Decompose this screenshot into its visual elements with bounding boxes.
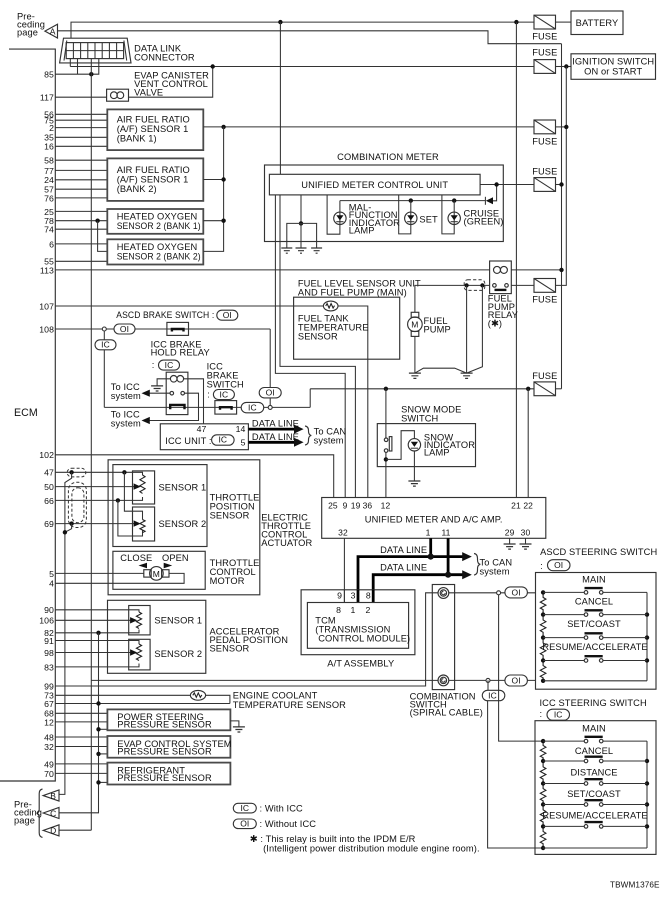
wire: pin 74 [55,228,107,230]
svg-text:106: 106 [39,616,54,626]
svg-text:LAMP: LAMP [349,226,375,236]
svg-text:SENSOR 2 (BANK 2): SENSOR 2 (BANK 2) [117,252,201,262]
svg-text:19: 19 [351,500,361,510]
data link connector body [60,38,131,63]
throttle control motor M [144,570,151,577]
wire: ECM pin 83 to accel sensor2 bottom [55,664,139,667]
svg-text:RESUME/ACCELERATE: RESUME/ACCELERATE [542,810,647,820]
svg-text:TBWM1376E: TBWM1376E [610,881,660,890]
wire: CRUISE lamp leg [442,195,454,234]
preceding page arrow A [45,24,58,38]
snow indicator lamp [408,439,420,451]
wire: K-line vertical bus to spiral cable / preceding page D [90,59,92,831]
svg-text:M: M [153,569,160,579]
svg-text:CONNECTOR: CONNECTOR [134,53,195,63]
wire: pin 56 [55,113,107,115]
svg-text:12: 12 [44,717,54,727]
wire: UMCU ground leg [300,195,302,224]
svg-text:SENSOR: SENSOR [210,511,250,521]
svg-text:MAIN: MAIN [582,724,606,734]
svg-text:14: 14 [236,424,246,434]
wire: ECM pin 113 to fuel pump relay coil [55,269,489,271]
wire: DLC pin to ignition line [69,59,71,67]
air fuel ratio sensor 1 bank 1 box [107,109,203,150]
wire: coil to ICC unit pin 47 [184,379,204,424]
connector circle on pin108 line [102,327,106,331]
svg-text:DATA LINE: DATA LINE [252,432,299,442]
svg-text:system: system [480,566,510,576]
IC oval on branch [95,340,116,350]
svg-text:A/T ASSEMBLY: A/T ASSEMBLY [327,659,394,669]
EVAP control system pressure sensor box [107,736,230,758]
svg-text:UNIFIED METER AND A/C AMP.: UNIFIED METER AND A/C AMP. [365,514,503,524]
svg-text:CANCEL: CANCEL [575,746,613,756]
wire: fuse3 to ignition bus [556,126,567,128]
svg-text:MAIN: MAIN [582,575,606,585]
wire: pin 35 [55,136,107,138]
wire: ECM pin 32 to EVAP pressure sensor [55,746,107,748]
wire: ECM pin 108 line through ASCD brake switch [55,328,270,330]
wire: ECM pin 66 to throttle sensor1 bottom [55,497,142,500]
wire: pin 76 [55,197,107,199]
ASCD brake switch contact [167,322,189,335]
open arrow [164,563,173,569]
ECM module outline [0,49,55,781]
svg-text:(BANK 2): (BANK 2) [117,184,157,194]
ground (A/C amp 29) [504,544,516,549]
svg-text:IC: IC [218,435,227,445]
wire: pin 16 [55,145,107,147]
svg-text:OI: OI [240,819,249,829]
svg-text:IC: IC [165,360,174,370]
wiper arrow sensor1 [134,483,141,489]
svg-text:OI: OI [554,560,563,570]
svg-text:DATA LINE: DATA LINE [380,545,427,555]
svg-text:SET: SET [419,214,438,224]
svg-text:ECM: ECM [14,407,38,419]
svg-text:IGNITION SWITCH: IGNITION SWITCH [572,57,654,67]
svg-text:CONTROL MODULE): CONTROL MODULE) [318,634,410,644]
wire: ECM pin 4 to throttle motor [55,573,184,583]
connector circle (bottom) [486,678,490,682]
svg-text:50: 50 [44,482,54,492]
svg-text:SENSOR: SENSOR [298,332,338,342]
svg-text:HEATED OXYGEN: HEATED OXYGEN [117,242,198,252]
wire: power feed from fuse6 line [309,389,311,408]
accel sensor 1 box [129,606,150,635]
dashed connector pill (pin 47) [67,468,86,477]
node: A/C amp pin22 tap [526,387,530,391]
wire: ground bus stub to power steering sensor [99,728,108,730]
wire: spiral top to ASCD steering switch [449,592,536,594]
wire: snow switch drop to A/C amp pin 12 [385,389,387,498]
wire: ECM pin 107 to fuel tank temperature sensor [55,305,323,307]
svg-text:system: system [314,436,344,446]
svg-text:PUMP: PUMP [424,325,451,335]
svg-text:21: 21 [511,500,521,510]
close arrow [139,563,148,569]
svg-text:DATA LINE: DATA LINE [252,419,299,429]
svg-text:CLOSE: CLOSE [120,553,152,563]
wire: pin22 vertical [527,389,529,498]
wire: snow lamp branch [386,431,415,460]
svg-text:ENGINE COOLANT: ENGINE COOLANT [233,690,318,700]
svg-text:page: page [17,28,38,38]
fuel level sensor unit and fuel pump box [294,297,400,359]
throttle control motor box [113,551,205,589]
dashed connector pill inner [72,488,84,523]
legend: OI oval [233,819,256,829]
svg-text:22: 22 [523,500,533,510]
EVAP vent valve solenoid coil [107,89,129,101]
svg-text:66: 66 [44,496,54,506]
wire: pin 55 [55,260,107,262]
heated oxygen sensor 2 bank 2 box [107,239,203,264]
wire: connector drops to ground [467,285,483,373]
wire: lamp supply rail to diode [340,200,486,202]
electric throttle control actuator box [108,460,260,595]
wire: battery feed line (top) [71,22,534,38]
ASCD steering switch box [536,573,657,690]
wire: pin 24 [55,179,107,181]
svg-text:107: 107 [39,301,54,311]
ground (fuel pump) [409,373,421,378]
fuel pump relay box [490,261,512,294]
air fuel ratio sensor 1 bank 2 box [107,158,203,201]
CAN data line 2 (pin 11) [373,538,465,590]
fuse F5 (fuel pump) [534,279,556,293]
node: pin 67 ground bus junction [96,701,100,705]
brace to CAN (lower) [474,554,480,576]
wire: ECM pin 91 to accel sensor2 top [55,641,139,645]
CRUISE lamp (green) [448,212,460,224]
wire: pin47 branch to throttle sensor2 top [124,472,142,519]
wire: ECM pin 50 to throttle sensor1 wiper [55,486,134,488]
wire: A line vertical segment to fuse4/relay/fuse6 [561,44,563,389]
svg-text:SENSOR 2 (BANK 1): SENSOR 2 (BANK 1) [117,221,201,231]
relay coil [494,266,501,273]
wiper arrow sensor2 [134,520,141,526]
node: valve supply junction on ignition line [211,64,215,68]
svg-text:25: 25 [328,500,338,510]
fuse F3 (sensors) [534,120,556,134]
SET lamp [405,212,417,224]
svg-text:HEATED OXYGEN: HEATED OXYGEN [117,212,198,222]
throttle sensor 1 potentiometer [140,475,145,493]
relay coil [170,376,177,383]
wire: fuel pump to ground [414,336,416,373]
node: 5V supply tap on pin47 line [69,470,73,474]
heated oxygen sensor 2 bank 1 box [107,209,203,234]
spiral bottom [438,675,449,686]
svg-text:(✱): (✱) [488,318,502,328]
svg-text:(SPIRAL CABLE): (SPIRAL CABLE) [410,708,483,718]
accel sensor 2 potentiometer [136,644,141,661]
svg-text:PRESSURE SENSOR: PRESSURE SENSOR [117,746,212,756]
relay contact bar [170,405,184,409]
wire: pin66 branch to throttle sensor2 bottom [118,500,143,536]
svg-text:OI: OI [223,310,232,320]
wire: SET lamp leg [399,195,411,234]
svg-text:IC: IC [248,402,257,412]
wire: pin 32 to TCM [343,538,345,602]
wire: ECM pin 48 to EVAP pressure sensor [55,736,107,738]
arrow to ICC system 2 [142,417,150,424]
wire: fuse to battery box [556,21,572,23]
svg-text:(A/F) SENSOR 1: (A/F) SENSOR 1 [117,124,189,134]
svg-text:11: 11 [441,527,450,537]
svg-text:SWITCH: SWITCH [401,414,438,424]
wire: pin 25 [55,210,107,212]
svg-text:98: 98 [44,648,54,658]
svg-text:system: system [111,391,141,401]
preceding page arrow D [43,825,59,836]
fuse F1 (battery) [534,15,556,29]
svg-text::: : [207,390,212,400]
svg-text:SWITCH: SWITCH [207,379,244,389]
svg-text:117: 117 [40,93,54,103]
accel sensor 1 potentiometer [136,612,141,629]
svg-text:SENSOR: SENSOR [210,644,250,654]
svg-text:47: 47 [197,424,207,434]
svg-text:(A/F) SENSOR 1: (A/F) SENSOR 1 [117,175,189,185]
svg-text:IC: IC [554,710,563,720]
svg-text:108: 108 [39,324,54,334]
combination switch (spiral cable) box [432,585,454,690]
wire: ICC bottom row [543,847,647,849]
ICC steering switch box [535,721,656,855]
svg-text:COMBINATION METER: COMBINATION METER [337,152,439,162]
svg-text:74: 74 [44,225,54,235]
wire: pin30 ground stub [525,538,527,544]
wire: drop to ICC steering switch MAIN [499,593,543,741]
svg-text:91: 91 [44,636,54,646]
A/T assembly box [301,590,415,655]
ground (ICC relay coil) [151,386,163,391]
svg-text:32: 32 [338,527,348,537]
node: battery junction to vertical bus [514,20,518,24]
wire: ECM pin 90 to accel sensor1 top [55,610,139,612]
wire: A/T pins into TCM [343,590,345,603]
diode D1 (meter supply) [486,197,493,204]
wire: ECM pin 49 to refrigerant sensor [55,763,107,765]
accelerator pedal position sensor box [108,600,206,673]
svg-text:83: 83 [44,662,54,672]
svg-text::: : [540,561,545,571]
wire: UMCU leg to A/C amp pin 9 [275,195,345,498]
svg-text:RESUME/ACCELERATE: RESUME/ACCELERATE [542,642,647,652]
svg-text:9: 9 [343,500,348,510]
node: pin66 branch [116,498,120,502]
svg-text:76: 76 [44,193,54,203]
dashed connector pill outer (pins 50/66/69) [68,482,86,527]
wire: pin 77 [55,169,107,171]
svg-text:page: page [14,816,35,826]
TCM box [307,603,408,649]
CAN data line 1 (pin 1) [358,538,465,590]
svg-text:SENSOR 2: SENSOR 2 [154,649,202,659]
svg-text:SENSOR 1: SENSOR 1 [154,616,202,626]
ground (A/C amp 30) [520,544,532,549]
ICC brake switch contact [215,401,237,415]
ground (power steering sensor) [233,727,245,732]
ASCD right bus [646,592,648,680]
OI oval (ASCD steering return) [505,675,528,686]
svg-text:MOTOR: MOTOR [210,576,245,586]
wire: ICC brake line [104,406,310,408]
wire: ECM pin 106 to accel sensor1 wiper [55,619,130,621]
wire: ECM pin 99 to spiral cable (top spiral) [55,593,438,686]
node: snow lamp junction [384,457,388,461]
wire: coil to ground [157,379,170,386]
wire: ground merge bar [415,368,467,373]
wire: 5V supply bus to preceding page B [59,472,72,794]
node: AF bank1 supply junction [221,125,225,129]
node: combination meter feed junction [278,20,282,24]
svg-text:OPEN: OPEN [162,553,189,563]
svg-text:HOLD RELAY: HOLD RELAY [151,348,210,358]
svg-text:FUSE: FUSE [532,32,557,42]
wire: pin29 ground stub [509,538,511,544]
svg-text::: : [540,709,545,719]
wire: ECM pin 102 to A/C amp pin 25 [55,455,333,498]
wire: preceding page A line [58,31,562,44]
svg-text:AIR FUEL RATIO: AIR FUEL RATIO [117,165,190,175]
svg-text:49: 49 [44,759,54,769]
snow switch contacts [384,438,388,442]
wire: relay contact to ICC system arrow 1 [150,392,171,394]
svg-text:4: 4 [49,579,54,589]
wire: drop via IC to ICC steering return [488,680,543,848]
fuel tank temperature sensor thermistor [323,301,338,311]
node: DLC K-line junction [89,72,93,76]
svg-text:102: 102 [39,450,54,460]
wire: pin108 IC branch [103,329,105,407]
wire: pin 78 with branch to bank2 sensor [55,220,107,222]
svg-text:30: 30 [521,527,531,537]
svg-text:FUSE: FUSE [532,295,557,305]
wire: supply vertical to bank2 and oxygen sensors [203,127,223,251]
unified meter control unit box [269,174,480,195]
svg-text:FUSE: FUSE [532,371,557,381]
data link connector pin grid [66,43,123,59]
dashed connector (fuel pump check) [464,280,485,291]
wire: ECM pin 67 line [55,703,230,705]
svg-text:AIR FUEL RATIO: AIR FUEL RATIO [117,115,190,125]
svg-text:OI: OI [512,675,521,685]
OI oval (ASCD steering feed) [505,587,528,598]
svg-text:1: 1 [350,605,355,615]
wire: fuel temp sensor to A/C amp pin 36 [338,306,368,498]
ICC left bus with resistors [540,741,546,848]
wire: battery vertical bus down to pin 21 [515,22,517,497]
svg-text:29: 29 [505,527,515,537]
wire: relay contact to fuse5 [511,284,534,286]
svg-text:85: 85 [44,70,54,80]
ICC brake hold relay box [166,372,188,414]
svg-text:system: system [111,418,141,428]
node: CRUISE lamp tap [452,198,456,202]
svg-text:FUSE: FUSE [532,137,557,147]
svg-text:ON or START: ON or START [584,67,642,77]
wire: pin 75 [55,119,107,121]
accel sensor 2 box [129,639,150,670]
svg-text:BATTERY: BATTERY [576,18,619,28]
svg-text:PRESSURE SENSOR: PRESSURE SENSOR [117,720,212,730]
power steering pressure sensor box [107,709,230,730]
svg-text::: : [152,360,157,370]
wire: oxygen bank1 right [203,220,223,222]
svg-text:8: 8 [336,605,341,615]
svg-text:IC: IC [220,389,229,399]
svg-text:C: C [50,808,56,818]
ground (meter 2) [296,248,307,253]
svg-text:PRESSURE SENSOR: PRESSURE SENSOR [117,773,212,783]
wire: K-line to bottom spiral [91,679,438,681]
wire: ASCD bottom row [543,680,647,682]
wire: ECM pin 68 to power steering sensor [55,712,107,714]
svg-text:ACTUATOR: ACTUATOR [261,538,312,548]
wire: fuel pump relay contact to fuel pump [415,285,490,312]
relay contact circles [170,391,174,395]
node: connector branch 2 [480,283,484,287]
svg-text:B: B [50,791,56,801]
wire: sensor ground bus vertical [59,633,99,813]
unified meter and A/C amp box [322,498,546,539]
svg-text:A: A [50,27,56,37]
svg-text:(BANK 1): (BANK 1) [117,134,157,144]
wire: ECM pin 12 to power steering sensor [55,721,107,723]
wire: pin69 jog to supply bus [65,524,72,533]
ASCD left bus with resistors [540,592,546,680]
svg-text:5: 5 [49,569,54,579]
wire: ASCD brake switch to OI oval drop [269,329,271,406]
arrow to ICC system 1 [142,390,150,397]
ignition switch box [571,54,656,80]
ground (meter 3) [311,248,322,253]
wire: snow lamp to ground [413,451,415,481]
IC oval (ICC steering return) [482,690,505,700]
wire: ECM pin 85 line to DLC [55,59,99,75]
legend: IC oval [233,803,256,813]
svg-text:16: 16 [44,142,54,152]
node: SET lamp tap [409,198,413,202]
svg-text:: With ICC: : With ICC [260,803,304,813]
svg-text:48: 48 [44,732,54,742]
wire: meter ground bracket [287,223,317,248]
svg-text:12: 12 [381,500,391,510]
wire: ECM pin 73 to coolant sensor [55,694,190,696]
node: connector branch 1 [465,283,469,287]
svg-text:SET/COAST: SET/COAST [567,789,621,799]
refrigerant pressure sensor box [107,763,230,785]
wire: arrow D to K-line bus [59,829,91,831]
throttle sensor 2 potentiometer [140,520,145,533]
svg-text:2: 2 [49,123,54,133]
svg-text:47: 47 [44,468,54,478]
svg-text:VALVE: VALVE [134,87,163,97]
wire: pin 58 [55,159,107,161]
node: ignition junction [564,64,568,68]
svg-text:DISTANCE: DISTANCE [570,768,617,778]
svg-text:58: 58 [44,156,54,166]
wire: UMCU leg to A/C amp pin 19 [280,195,355,498]
svg-text:AND FUEL PUMP (MAIN): AND FUEL PUMP (MAIN) [298,288,407,298]
brace preceding page BCD [37,789,43,837]
svg-text:8: 8 [366,591,371,601]
svg-text:32: 32 [44,742,54,752]
svg-text:113: 113 [40,265,54,275]
